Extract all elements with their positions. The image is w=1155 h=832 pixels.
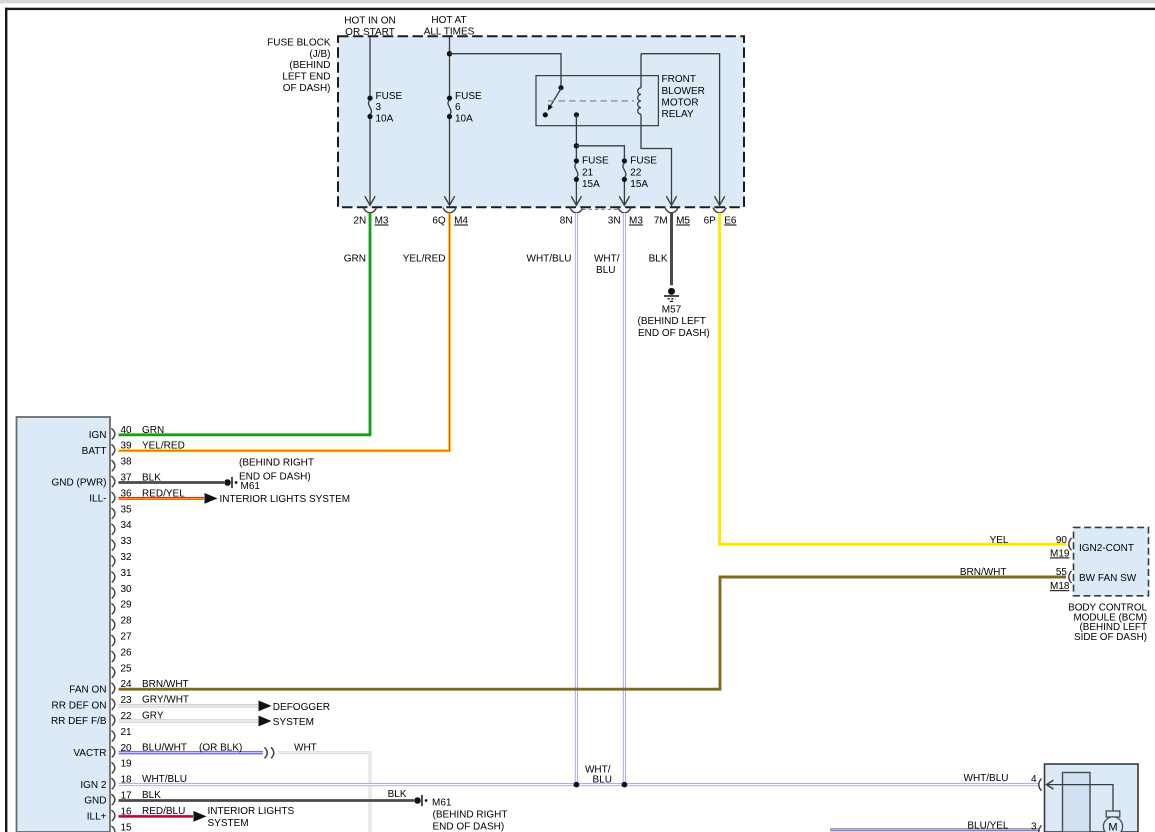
- connector pin 15: [111, 822, 132, 832]
- body control module dashed box: [1074, 527, 1149, 595]
- svg-text:FUSE: FUSE: [582, 156, 609, 167]
- relay switch arm with arrow: [550, 89, 561, 107]
- inline connector symbol pin 20: [265, 747, 274, 758]
- svg-text:E6: E6: [724, 216, 737, 227]
- front blower motor box: [1045, 764, 1139, 832]
- connector pin 19: [111, 759, 132, 774]
- svg-text:GRN: GRN: [344, 253, 366, 264]
- motor terminal: [1106, 811, 1120, 817]
- wire coil bottom to pin 7M: [641, 114, 672, 205]
- arrow at pin 7M: [666, 196, 676, 205]
- wire WHT/BLU from 8N down: [575, 213, 578, 785]
- connector cup pin 8N: [570, 208, 583, 213]
- svg-text:(BEHIND RIGHT: (BEHIND RIGHT: [239, 457, 314, 468]
- connector cup pin 6P: [713, 208, 726, 213]
- wire switch output to fuse junction: [575, 115, 577, 159]
- junction dot relay feed: [447, 51, 452, 56]
- svg-text:ALL TIMES: ALL TIMES: [424, 26, 475, 37]
- connector pin 39: [111, 441, 132, 456]
- wire WHT pin 20 continuation: [278, 753, 370, 832]
- wire WHT/BLU from 3N down: [623, 213, 626, 785]
- svg-text:YEL/RED: YEL/RED: [142, 441, 185, 452]
- svg-text:7M: 7M: [654, 216, 668, 227]
- label FUSE BLOCK (J/B) (BEHIND LEFT END OF DASH): [267, 37, 331, 94]
- wire BLU/WHT pin 20: [119, 751, 264, 754]
- connector pin 30: [111, 584, 132, 599]
- connector pin 27: [111, 632, 132, 647]
- connector cup blower pin 3: [1039, 825, 1042, 832]
- relay switch left contact: [543, 112, 548, 117]
- svg-text:32: 32: [121, 552, 133, 563]
- wire inside blower box: [1047, 785, 1114, 811]
- svg-text:ILL+: ILL+: [87, 812, 107, 823]
- svg-text:BLK: BLK: [142, 790, 161, 801]
- svg-text:BW FAN SW: BW FAN SW: [1079, 573, 1137, 584]
- svg-text:39: 39: [121, 441, 133, 452]
- svg-text:15A: 15A: [630, 179, 648, 190]
- svg-text:SIDE OF DASH): SIDE OF DASH): [1074, 632, 1147, 643]
- fuse F22 15A: [622, 156, 657, 191]
- svg-text:15A: 15A: [582, 179, 600, 190]
- svg-text:26: 26: [121, 647, 133, 658]
- wire WHT/BLU pin 18 to blower pin 4: [119, 783, 1040, 786]
- connector pin 35: [111, 504, 132, 519]
- svg-text:55: 55: [1056, 567, 1068, 578]
- connector cup BCM pin 90: [1069, 538, 1072, 550]
- wire YEL from 6P to BCM pin 90: [718, 213, 721, 544]
- connector cup BCM pin 55: [1069, 571, 1072, 583]
- connector cup pin 7M: [665, 208, 678, 213]
- svg-text:SYSTEM: SYSTEM: [208, 818, 249, 829]
- svg-text:M19: M19: [1050, 548, 1070, 559]
- svg-text:40: 40: [121, 425, 133, 436]
- svg-text:IGN 2: IGN 2: [80, 780, 107, 791]
- svg-text:FUSE: FUSE: [630, 156, 657, 167]
- svg-text:M5: M5: [676, 216, 690, 227]
- svg-text:RED/YEL: RED/YEL: [142, 488, 185, 499]
- svg-text:WHT/BLU: WHT/BLU: [964, 773, 1009, 784]
- svg-text:2N: 2N: [353, 216, 366, 227]
- wire BLK pin 37 to splice M61: [119, 481, 225, 484]
- arrow into blower pin 4: [1047, 780, 1054, 789]
- svg-text:6Q: 6Q: [432, 216, 446, 227]
- svg-text:27: 27: [121, 632, 133, 643]
- connector pin 17: [111, 791, 132, 806]
- wire BLK pin 17 to splice M61 lower: [119, 799, 415, 802]
- label INTERIOR LIGHTS SYSTEM (lower): [208, 806, 295, 829]
- svg-text:BLU/WHT: BLU/WHT: [142, 742, 187, 753]
- svg-text:BRN/WHT: BRN/WHT: [142, 679, 189, 690]
- wire fuse 21 to pin 8N: [575, 182, 577, 205]
- connector pin 18: [111, 775, 132, 790]
- wire fuse 6 to pin 6Q: [449, 119, 451, 205]
- connector cup pin 3N: [618, 208, 631, 213]
- connector cup pin 2N: [363, 208, 376, 213]
- arrow to interior lights system (upper): [205, 493, 218, 504]
- svg-text:21: 21: [582, 167, 594, 178]
- svg-text:M: M: [1108, 822, 1117, 832]
- svg-text:INTERIOR LIGHTS SYSTEM: INTERIOR LIGHTS SYSTEM: [220, 494, 351, 505]
- svg-text:BLU/YEL: BLU/YEL: [967, 821, 1009, 832]
- svg-text:M57: M57: [662, 304, 682, 315]
- svg-text:M3: M3: [375, 216, 389, 227]
- svg-text:WHT/: WHT/: [594, 253, 620, 264]
- svg-text:28: 28: [121, 616, 133, 627]
- fuse F3 10A: [367, 91, 402, 125]
- wire RED/BLU pin 16: [119, 815, 194, 818]
- svg-text:90: 90: [1056, 535, 1068, 546]
- svg-text:(OR BLK): (OR BLK): [199, 742, 242, 753]
- svg-text:15: 15: [121, 822, 133, 832]
- svg-text:BLU: BLU: [596, 265, 615, 276]
- svg-text:OF DASH): OF DASH): [283, 83, 331, 94]
- pin label 7M M5: [654, 216, 691, 227]
- svg-text:(J/B): (J/B): [309, 49, 330, 60]
- svg-text:25: 25: [121, 663, 133, 674]
- svg-text:8N: 8N: [560, 216, 573, 227]
- svg-text:(BEHIND LEFT: (BEHIND LEFT: [638, 316, 706, 327]
- svg-text:RR DEF ON: RR DEF ON: [52, 700, 107, 711]
- svg-text:FRONT: FRONT: [662, 74, 696, 85]
- svg-text:WHT/BLU: WHT/BLU: [527, 253, 572, 264]
- arrow at pin 2N: [365, 196, 375, 205]
- svg-text:29: 29: [121, 600, 133, 611]
- svg-text:MOTOR: MOTOR: [662, 97, 699, 108]
- svg-text:HOT IN ON: HOT IN ON: [344, 15, 395, 26]
- label HOT AT ALL TIMES: [424, 15, 475, 38]
- relay internal dashed link: [548, 100, 634, 102]
- svg-text:30: 30: [121, 584, 133, 595]
- junction dot fuse 21/22: [574, 143, 579, 148]
- connector pin 31: [111, 568, 132, 583]
- wire fuse 22 to pin 3N: [623, 182, 625, 205]
- connector pin 20: [111, 743, 132, 758]
- pin label 6Q M4: [432, 216, 468, 227]
- label M61 (BEHIND RIGHT END OF DASH) lower: [432, 798, 508, 832]
- connector pin 33: [111, 536, 132, 551]
- label WHT/BLU 3N: [594, 253, 620, 276]
- svg-text:38: 38: [121, 457, 133, 468]
- svg-text:INTERIOR LIGHTS: INTERIOR LIGHTS: [208, 806, 295, 817]
- connector pin 32: [111, 552, 132, 567]
- connector pin 24: [111, 679, 132, 694]
- wire hot-at-all-times feed to fuse 6: [449, 37, 451, 96]
- wire fuse 3 to pin 2N: [369, 119, 371, 205]
- svg-text:BLOWER: BLOWER: [662, 86, 705, 97]
- arrow at pin 8N: [571, 196, 581, 205]
- fuse block (J/B) dashed box: [338, 36, 744, 207]
- pin label 3N M3: [608, 216, 644, 227]
- arrow at pin 6Q: [444, 196, 454, 205]
- svg-text:WHT: WHT: [294, 742, 317, 753]
- wire junction to fuse 22: [576, 146, 624, 158]
- arrow at pin 3N: [619, 196, 629, 205]
- svg-text:OR START: OR START: [345, 27, 395, 38]
- svg-text:BLK: BLK: [142, 473, 161, 484]
- label FRONT BLOWER MOTOR RELAY: [662, 74, 705, 120]
- label BODY CONTROL MODULE (BCM) (BEHIND LEFT SIDE OF DASH): [1068, 602, 1147, 643]
- relay switch common contact: [558, 85, 563, 90]
- svg-text:BATT: BATT: [82, 446, 107, 457]
- connector pin 34: [111, 520, 132, 535]
- connector pin 16: [111, 806, 132, 821]
- pin label 2N M3: [353, 216, 389, 227]
- svg-text:ILL-: ILL-: [89, 494, 106, 505]
- svg-text:GND (PWR): GND (PWR): [52, 478, 107, 489]
- wire GRY pin 22: [119, 720, 259, 723]
- fuse F21 15A: [574, 156, 609, 191]
- svg-text:10A: 10A: [376, 114, 394, 125]
- arrow to defogger system 2: [259, 716, 272, 727]
- wire coil top to pin 6P: [641, 54, 720, 206]
- svg-text:BRN/WHT: BRN/WHT: [960, 567, 1007, 578]
- svg-text:GRY/WHT: GRY/WHT: [142, 695, 189, 706]
- svg-text:YEL: YEL: [990, 535, 1009, 546]
- wire BLU/YEL to blower pin 3: [830, 828, 1039, 831]
- junction dot 8N wire: [574, 782, 580, 788]
- label WHT/ BLU mid: [585, 764, 612, 785]
- svg-text:4: 4: [1031, 774, 1037, 785]
- relay switch output contact: [574, 112, 579, 117]
- junction dot 3N wire: [622, 782, 628, 788]
- svg-text:GRN: GRN: [142, 425, 164, 436]
- wire YEL/RED from 6Q to pin 39: [119, 213, 450, 451]
- wire relay switch feed: [450, 54, 562, 86]
- connector pin 38: [111, 457, 132, 472]
- page frame top border: [5, 8, 1155, 10]
- svg-text:31: 31: [121, 568, 133, 579]
- svg-text:LEFT END: LEFT END: [282, 72, 330, 83]
- label BLU/WHT (OR BLK) pin 20: [142, 742, 242, 753]
- relay coil: [638, 54, 641, 114]
- svg-text:M61: M61: [432, 798, 452, 809]
- svg-text:FAN ON: FAN ON: [69, 684, 106, 695]
- connector pin 22: [111, 711, 132, 726]
- connector cup blower pin 4: [1039, 778, 1042, 790]
- svg-text:M3: M3: [629, 216, 643, 227]
- svg-text:IGN: IGN: [89, 430, 107, 441]
- left connector block (combination meter connector): [17, 417, 111, 832]
- wire BLK from 7M to ground: [670, 213, 673, 285]
- svg-text:BLK: BLK: [388, 789, 407, 800]
- svg-text:6: 6: [455, 102, 461, 113]
- window top edge band: [0, 0, 1155, 3]
- svg-text:22: 22: [630, 167, 642, 178]
- svg-text:(BEHIND: (BEHIND: [289, 60, 330, 71]
- connector pin 23: [111, 695, 132, 710]
- svg-text:VACTR: VACTR: [73, 748, 106, 759]
- svg-text:BLK: BLK: [649, 253, 668, 264]
- label HOT IN ON OR START: [344, 15, 395, 38]
- svg-text:3N: 3N: [608, 216, 621, 227]
- pin label 6P E6: [704, 216, 737, 227]
- svg-text:35: 35: [121, 504, 133, 515]
- svg-text:6P: 6P: [704, 216, 717, 227]
- blower resistor block: [1063, 773, 1091, 832]
- wire GRN from 2N to pin 40: [119, 213, 371, 435]
- motor M circle: [1103, 817, 1122, 832]
- label M57 (BEHIND LEFT END OF DASH): [638, 304, 710, 339]
- connector pin 28: [111, 616, 132, 631]
- svg-text:RED/BLU: RED/BLU: [142, 806, 185, 817]
- svg-text:3: 3: [1031, 822, 1037, 832]
- label M61 (BEHIND RIGHT END OF DASH) upper: [239, 457, 314, 492]
- svg-text:BLU: BLU: [593, 775, 612, 786]
- svg-text:10A: 10A: [455, 114, 473, 125]
- svg-text:SYSTEM: SYSTEM: [273, 717, 314, 728]
- connector pin 29: [111, 600, 132, 615]
- connector pin 26: [111, 647, 132, 662]
- svg-text:RELAY: RELAY: [662, 109, 694, 120]
- wire RED/YEL pin 36: [119, 497, 205, 500]
- svg-text:RR DEF F/B: RR DEF F/B: [51, 716, 107, 727]
- pin label 8N: [560, 216, 573, 227]
- svg-text:GND: GND: [84, 796, 106, 807]
- wire BRN/WHT pin 24 to BCM pin 55: [119, 577, 1067, 689]
- arrow to interior lights system (lower): [194, 811, 207, 822]
- page frame left border: [5, 8, 7, 832]
- connector pin 25: [111, 663, 132, 678]
- svg-text:FUSE: FUSE: [376, 91, 403, 102]
- connector pin 21: [111, 727, 132, 742]
- wire GRY/WHT pin 23: [119, 704, 259, 707]
- arrow at pin 6P: [714, 196, 724, 205]
- svg-text:END OF DASH): END OF DASH): [433, 822, 505, 832]
- svg-text:FUSE BLOCK: FUSE BLOCK: [267, 37, 331, 48]
- svg-text:WHT/BLU: WHT/BLU: [142, 774, 187, 785]
- connector pin 37: [111, 473, 132, 488]
- relay box outline: [536, 76, 658, 126]
- svg-text:M4: M4: [454, 216, 468, 227]
- ground symbol M57: [664, 288, 679, 302]
- arrow to defogger system: [259, 701, 272, 712]
- svg-text:M61: M61: [241, 481, 261, 492]
- fuse F6 10A: [447, 91, 482, 125]
- svg-text:GRY: GRY: [142, 711, 164, 722]
- svg-text:DEFOGGER: DEFOGGER: [273, 702, 330, 713]
- svg-text:M18: M18: [1050, 581, 1070, 592]
- svg-text:HOT AT: HOT AT: [431, 15, 466, 26]
- svg-text:FUSE: FUSE: [455, 91, 482, 102]
- svg-text:34: 34: [121, 520, 133, 531]
- svg-text:(BEHIND RIGHT: (BEHIND RIGHT: [433, 810, 508, 821]
- connector pin 36: [111, 488, 132, 503]
- svg-text:33: 33: [121, 536, 133, 547]
- splice M61 (lower): [414, 797, 421, 804]
- svg-text:IGN2-CONT: IGN2-CONT: [1079, 543, 1134, 554]
- svg-text:3: 3: [376, 102, 382, 113]
- dashed connector link 8N-3N: [582, 208, 618, 210]
- wire hot-in-on feed to fuse 3: [369, 37, 371, 96]
- splice M61 (upper): [224, 479, 231, 486]
- svg-text:END OF DASH): END OF DASH): [638, 328, 710, 339]
- svg-text:YEL/RED: YEL/RED: [403, 253, 446, 264]
- connector pin 40: [111, 425, 132, 440]
- connector cup pin 6Q: [443, 208, 456, 213]
- svg-text:19: 19: [121, 759, 133, 770]
- svg-text:21: 21: [121, 727, 133, 738]
